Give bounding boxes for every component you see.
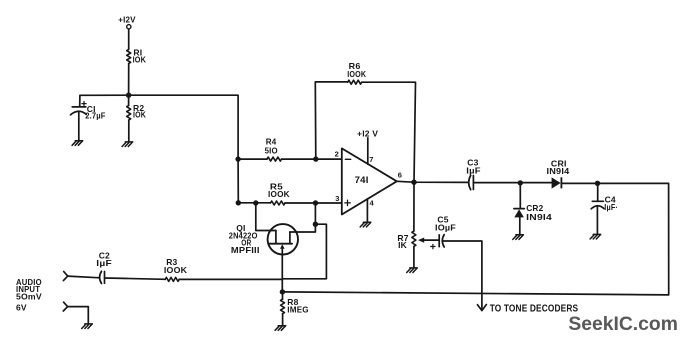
svg-text:6: 6 bbox=[398, 171, 402, 180]
svg-text:IOOK: IOOK bbox=[268, 189, 290, 199]
svg-text:IMEG: IMEG bbox=[287, 305, 309, 315]
svg-text:IµF·: IµF· bbox=[604, 202, 618, 212]
svg-text:IOµF: IOµF bbox=[435, 222, 456, 232]
svg-text:+I2V: +I2V bbox=[118, 14, 136, 24]
svg-text:3: 3 bbox=[335, 194, 339, 203]
svg-text:IOK: IOK bbox=[133, 55, 147, 65]
svg-text:2.7µF: 2.7µF bbox=[85, 111, 105, 121]
svg-text:IN9I4: IN9I4 bbox=[547, 166, 570, 176]
svg-text:IµF: IµF bbox=[96, 258, 112, 268]
svg-text:+I2 V: +I2 V bbox=[357, 129, 378, 139]
svg-text:IµF: IµF bbox=[466, 165, 481, 175]
svg-text:IN9I4: IN9I4 bbox=[526, 212, 552, 222]
svg-text:5OmV: 5OmV bbox=[16, 292, 42, 302]
svg-text:SeekIC.com: SeekIC.com bbox=[568, 313, 678, 335]
svg-text:IOOK: IOOK bbox=[347, 69, 367, 79]
svg-text:5IO: 5IO bbox=[265, 145, 278, 155]
svg-text:TO TONE DECODERS: TO TONE DECODERS bbox=[490, 303, 579, 314]
svg-text:IOOK: IOOK bbox=[164, 265, 188, 275]
svg-text:2: 2 bbox=[335, 149, 339, 158]
svg-text:6V: 6V bbox=[16, 302, 27, 312]
svg-text:74I: 74I bbox=[355, 175, 369, 185]
svg-text:IK: IK bbox=[398, 240, 408, 250]
svg-text:MPFIII: MPFIII bbox=[231, 245, 260, 255]
svg-text:4: 4 bbox=[370, 198, 375, 207]
svg-text:IOK: IOK bbox=[133, 110, 147, 120]
svg-text:7: 7 bbox=[369, 155, 373, 164]
